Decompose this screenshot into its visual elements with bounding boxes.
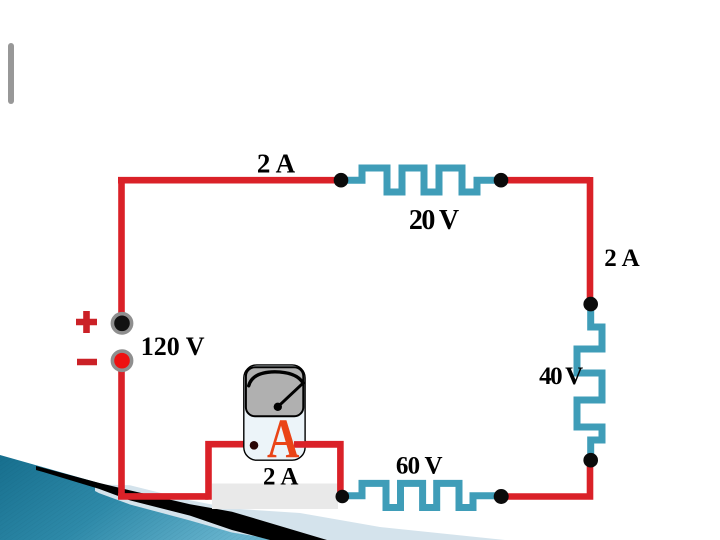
- svg-text:2 A: 2 A: [257, 149, 296, 179]
- resistor R2 (right, 40 V) teal meander: [577, 304, 602, 460]
- wire: ammeter loop (red): [209, 444, 341, 500]
- resistor R3 (bottom, 60 V) teal meander: [342, 483, 501, 507]
- svg-text:40 V: 40 V: [539, 363, 583, 390]
- node dot: bottom right junction: [494, 489, 509, 504]
- wire: left vertical lower (red): [118, 371, 209, 500]
- node dot: top right junction: [494, 173, 509, 188]
- slide decoration: gray side bar: [8, 43, 14, 104]
- wire: top left horizontal (red): [118, 177, 341, 184]
- gray highlight band under ammeter label: [212, 484, 338, 510]
- slide decoration: pale blue corner wedge: [95, 485, 505, 540]
- node dot: top left junction: [334, 173, 349, 188]
- battery terminal - (gray ring, red center): [112, 351, 131, 370]
- battery - sign: [77, 359, 97, 366]
- svg-text:60 V: 60 V: [396, 452, 443, 479]
- wire: top right horizontal (red): [501, 177, 590, 307]
- slide decoration: black corner band: [36, 466, 327, 540]
- svg-text:120 V: 120 V: [141, 332, 205, 361]
- wire: ammeter right lead (red): [294, 441, 340, 448]
- ammeter scale arc: [249, 372, 303, 386]
- ammeter M1 body: [244, 365, 305, 460]
- svg-text:20 V: 20 V: [409, 205, 459, 236]
- ammeter letter A: [267, 408, 300, 470]
- svg-text:2 A: 2 A: [604, 245, 639, 272]
- node dot: right upper junction: [583, 297, 598, 312]
- resistor R1 (top, 20 V) teal meander: [341, 168, 501, 192]
- node dot: right lower junction: [583, 453, 598, 468]
- node dot: bottom left junction: [336, 490, 350, 504]
- battery + sign: [76, 311, 97, 333]
- battery terminal + (gray ring, black center): [112, 314, 131, 333]
- ammeter needle: [278, 384, 303, 407]
- wire: right vertical lower + bottom right (red): [501, 460, 593, 497]
- ammeter gauge face: [246, 367, 303, 416]
- ammeter needle pivot: [274, 403, 282, 411]
- svg-text:A: A: [267, 408, 300, 470]
- ammeter left terminal blob: [250, 441, 259, 450]
- wire: left vertical upper (red): [118, 177, 125, 313]
- svg-text:2 A: 2 A: [263, 463, 298, 490]
